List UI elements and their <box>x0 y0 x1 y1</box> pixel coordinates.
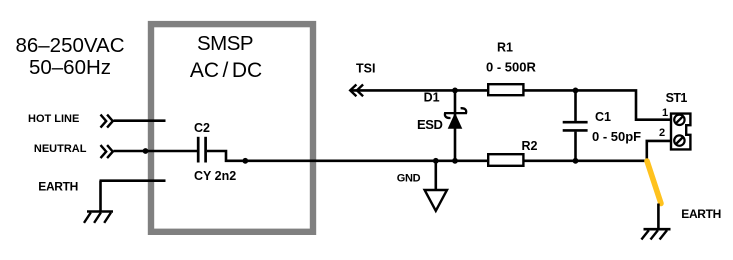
wire neutral to C2 <box>114 150 198 153</box>
wire gnd stub <box>434 161 437 190</box>
svg-text:C1: C1 <box>595 110 611 124</box>
junction neutral at box edge <box>143 148 149 154</box>
junction D1 bottom <box>452 158 458 164</box>
hot line input chevron <box>101 115 113 128</box>
svg-text:HOT LINE: HOT LINE <box>28 113 79 125</box>
svg-text:GND: GND <box>397 173 421 185</box>
svg-text:D1: D1 <box>424 91 440 105</box>
wire ST1 pin2 to bottom rail <box>647 141 670 161</box>
svg-text:AC / DC: AC / DC <box>190 59 262 82</box>
svg-text:EARTH: EARTH <box>38 180 78 194</box>
svg-text:0 - 500R: 0 - 500R <box>486 59 536 74</box>
junction after C2 <box>242 158 248 164</box>
svg-text:ESD: ESD <box>417 117 443 132</box>
connector ST1 body <box>671 114 690 150</box>
screw 2 <box>674 135 684 145</box>
svg-text:TSI: TSI <box>356 62 375 76</box>
svg-text:50–60Hz: 50–60Hz <box>29 56 111 79</box>
junction C1 bottom <box>573 158 579 164</box>
wire earth into box <box>100 179 166 182</box>
tsi output chevron <box>350 85 363 97</box>
wire to earth ground right <box>657 204 660 230</box>
svg-text:R1: R1 <box>497 41 513 55</box>
svg-text:CY 2n2: CY 2n2 <box>194 169 236 183</box>
ground gnd open triangle <box>425 190 447 211</box>
svg-text:1: 1 <box>662 107 668 119</box>
svg-text:EARTH: EARTH <box>681 207 721 221</box>
ground earth symbol right <box>641 229 670 239</box>
junction C1 top <box>573 88 579 94</box>
junction D1 top <box>452 88 458 94</box>
svg-text:C2: C2 <box>194 121 210 135</box>
svg-text:0 - 50pF: 0 - 50pF <box>592 129 641 144</box>
junction gnd <box>433 158 439 164</box>
svg-text:2: 2 <box>659 127 665 139</box>
screw 1 <box>674 115 684 125</box>
wire earth down <box>99 181 102 212</box>
wire top rail TSI to ST1 pin1 <box>352 90 670 119</box>
ground earth symbol left <box>84 212 113 223</box>
wire C2 output jog to bottom rail <box>207 151 647 161</box>
svg-text:86–250VAC: 86–250VAC <box>15 34 124 57</box>
svg-text:SMSP: SMSP <box>197 32 253 55</box>
wire yellow earth link <box>647 161 661 204</box>
neutral input chevron <box>101 145 113 158</box>
svg-text:R2: R2 <box>522 139 538 153</box>
svg-text:ST1: ST1 <box>666 91 688 105</box>
wire hot line <box>114 119 166 122</box>
svg-text:NEUTRAL: NEUTRAL <box>34 143 87 155</box>
box SMSP AC/DC power supply block <box>151 24 313 232</box>
